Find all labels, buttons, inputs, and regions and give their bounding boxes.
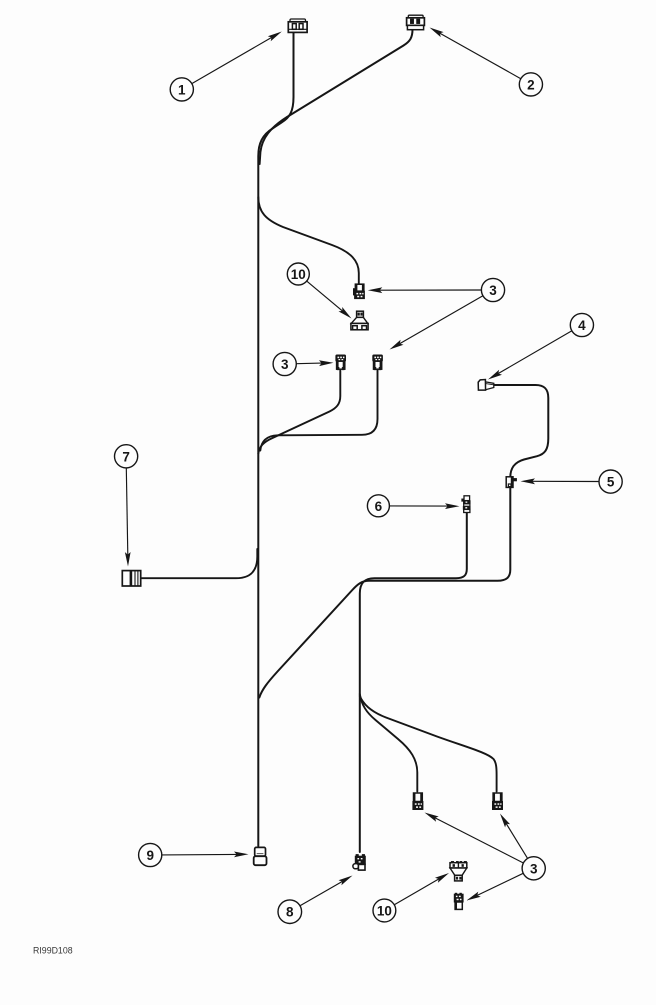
svg-text:1: 1 bbox=[178, 82, 186, 97]
svg-text:4: 4 bbox=[578, 318, 586, 333]
svg-text:6: 6 bbox=[375, 499, 383, 514]
svg-text:3: 3 bbox=[281, 357, 289, 372]
svg-text:5: 5 bbox=[607, 475, 615, 490]
svg-text:2: 2 bbox=[527, 77, 535, 92]
svg-text:3: 3 bbox=[489, 283, 497, 298]
svg-text:RI99D108: RI99D108 bbox=[33, 946, 73, 956]
svg-text:10: 10 bbox=[291, 267, 306, 282]
svg-text:7: 7 bbox=[122, 449, 130, 464]
svg-text:8: 8 bbox=[286, 905, 294, 920]
svg-text:3: 3 bbox=[530, 861, 538, 876]
svg-text:9: 9 bbox=[146, 848, 154, 863]
svg-text:10: 10 bbox=[377, 904, 392, 919]
